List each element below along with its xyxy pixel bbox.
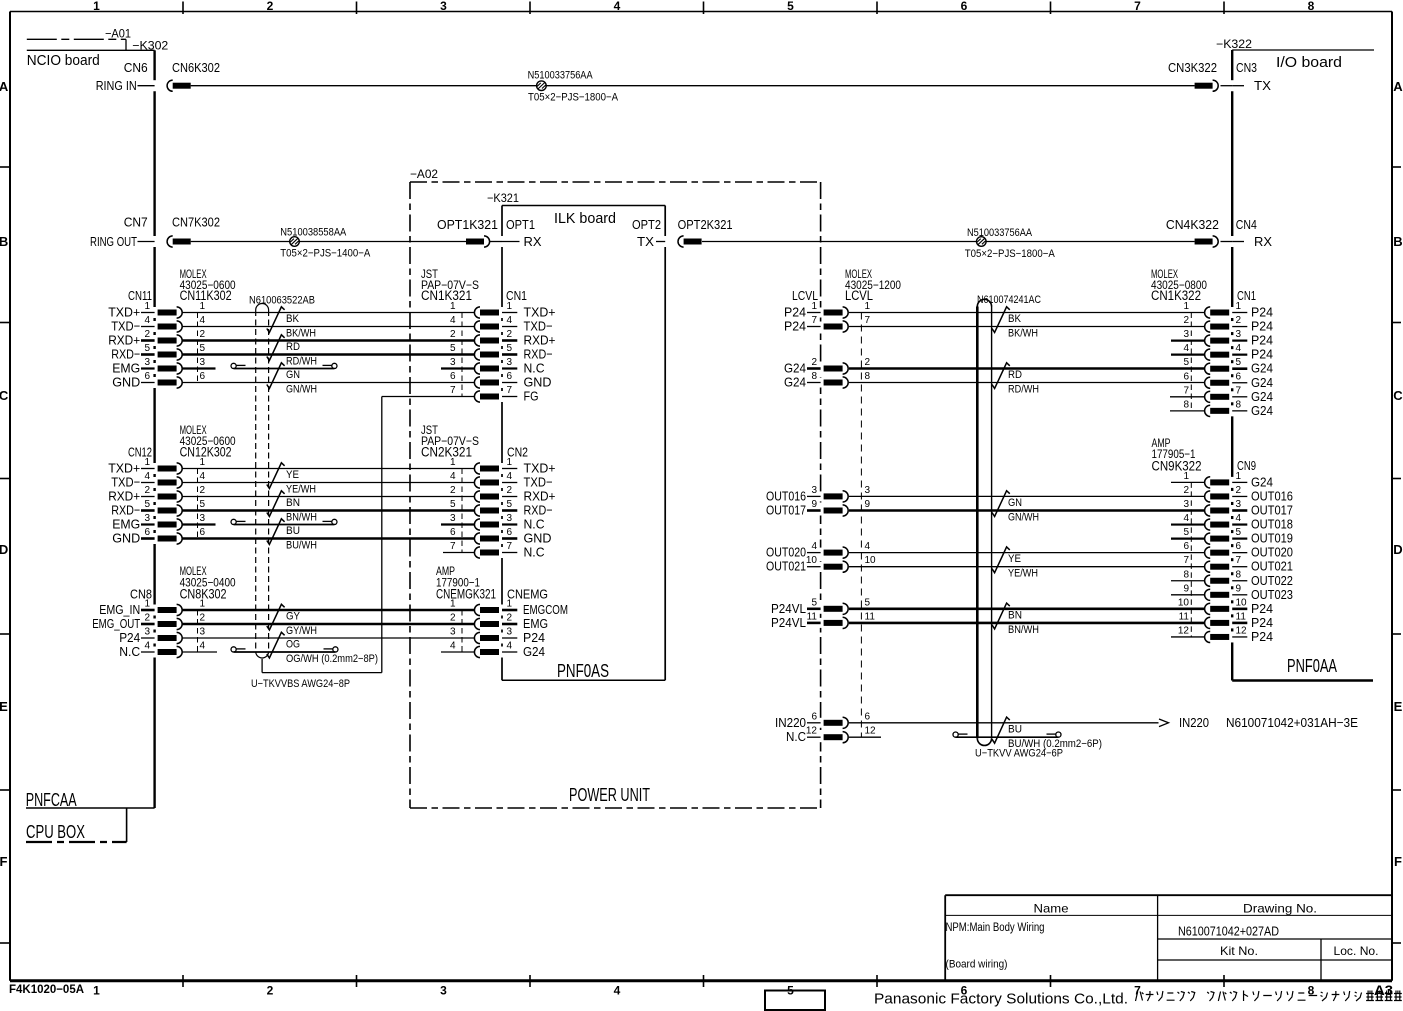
svg-text:5: 5 (787, 0, 794, 13)
svg-text:B: B (1393, 234, 1402, 249)
svg-text:7: 7 (1236, 385, 1242, 396)
svg-text:7: 7 (1134, 0, 1141, 13)
svg-text:8: 8 (811, 371, 817, 382)
svg-text:G24: G24 (1251, 389, 1273, 404)
svg-text:1: 1 (1183, 471, 1189, 482)
svg-text:OG/WH (0.2mm2−8P): OG/WH (0.2mm2−8P) (286, 653, 378, 665)
svg-text:4: 4 (811, 541, 817, 552)
boundary -A01 dash-dot line (27, 38, 126, 40)
svg-text:OUT019: OUT019 (1251, 531, 1293, 546)
svg-text:P24: P24 (784, 305, 806, 320)
svg-text:ILK board: ILK board (554, 210, 616, 227)
svg-text:TXD−: TXD− (111, 319, 140, 334)
svg-text:BN: BN (1008, 610, 1022, 622)
wire color slash BU pair (267, 519, 285, 545)
svg-text:3: 3 (440, 0, 447, 13)
wire OPT1K321 stub to ILK board (490, 241, 502, 243)
wire OPT1 RX stub (502, 241, 520, 243)
svg-text:4: 4 (1236, 343, 1242, 354)
wire CN11.4-CN1K321.4 (183, 326, 475, 328)
wire CN8.2-CNEMG.2 bold (183, 623, 475, 626)
svg-text:1: 1 (144, 599, 150, 610)
svg-text:P24: P24 (784, 319, 806, 334)
svg-text:2: 2 (1236, 485, 1242, 496)
board I/O left edge vertical (1231, 50, 1233, 80)
svg-text:OUT021: OUT021 (1251, 559, 1293, 574)
svg-text:GY: GY (286, 611, 301, 623)
svg-text:8: 8 (1236, 399, 1242, 410)
svg-text:G24: G24 (1251, 375, 1273, 390)
svg-text:PNF0AA: PNF0AA (1287, 656, 1337, 676)
svg-text:GN: GN (1008, 497, 1022, 509)
svg-text:GND: GND (524, 375, 552, 390)
connector CN1K322 boundary line (1190, 313, 1192, 411)
svg-text:B: B (0, 234, 8, 249)
svg-text:2: 2 (811, 357, 817, 368)
svg-text:OPT2: OPT2 (632, 217, 661, 232)
wire LCVL.5-CN9K322.10 bold (849, 607, 1204, 610)
svg-text:3: 3 (450, 627, 456, 638)
svg-text:P24VL: P24VL (771, 601, 806, 616)
connector CNEMGK321 boundary line (461, 610, 463, 652)
svg-text:11: 11 (1179, 611, 1190, 622)
svg-text:OUT023: OUT023 (1251, 587, 1293, 602)
svg-text:1: 1 (811, 301, 817, 312)
connector LCVL boundary line (860, 313, 862, 738)
wire CN9K322.9 stub (1171, 594, 1204, 596)
wire color slash BU pair right (992, 717, 1010, 743)
svg-text:3: 3 (450, 357, 456, 368)
svg-text:N.C: N.C (524, 545, 545, 560)
svg-text:3: 3 (507, 513, 513, 524)
wire color slash YE pair (267, 463, 285, 489)
svg-text:5: 5 (200, 499, 206, 510)
svg-text:6: 6 (144, 527, 150, 538)
board NCIO top edge (27, 49, 155, 51)
svg-text:Loc. No.: Loc. No. (1334, 944, 1379, 958)
svg-text:4: 4 (614, 984, 621, 998)
svg-text:2: 2 (200, 329, 206, 340)
svg-text:P24: P24 (1251, 305, 1273, 320)
svg-text:7: 7 (1236, 555, 1242, 566)
svg-text:P24: P24 (1251, 347, 1273, 362)
connector CN12K302 boundary line (197, 469, 199, 539)
board ILK right edge vertical (664, 206, 666, 237)
svg-text:1: 1 (93, 0, 100, 13)
svg-text:4: 4 (507, 641, 513, 652)
svg-text:OUT017: OUT017 (1251, 503, 1293, 518)
svg-text:3: 3 (200, 627, 206, 638)
svg-text:4: 4 (200, 641, 206, 652)
boundary POWER UNIT dashed box (410, 181, 821, 183)
svg-text:2: 2 (1183, 485, 1189, 496)
svg-text:BU/WH (0.2mm2−6P): BU/WH (0.2mm2−6P) (1008, 738, 1102, 750)
svg-text:CNEMG: CNEMG (507, 587, 548, 602)
wire RING OUT stub (138, 241, 155, 243)
connector CN8K302 boundary line (197, 610, 199, 652)
svg-text:3: 3 (1183, 329, 1189, 340)
svg-text:3: 3 (811, 485, 817, 496)
svg-text:6: 6 (865, 711, 871, 722)
svg-text:RD: RD (1008, 369, 1022, 381)
svg-text:N510038558AA: N510038558AA (280, 227, 347, 239)
svg-text:8: 8 (1308, 0, 1315, 13)
svg-text:7: 7 (811, 315, 817, 326)
svg-text:1: 1 (1236, 471, 1242, 482)
wire LCVL.4-CN9K322.6 (849, 552, 1204, 554)
svg-text:RXD−: RXD− (111, 347, 140, 362)
connector CN2K321 pins (474, 463, 480, 474)
svg-text:4: 4 (1236, 513, 1242, 524)
svg-text:U−TKVVBS AWG24−8P: U−TKVVBS AWG24−8P (251, 678, 350, 690)
svg-text:OUT017: OUT017 (766, 503, 806, 518)
svg-text:5: 5 (144, 499, 150, 510)
svg-text:CN7: CN7 (124, 215, 148, 230)
svg-text:PNF0AS: PNF0AS (557, 661, 609, 681)
svg-text:1: 1 (200, 301, 206, 312)
svg-text:RING OUT: RING OUT (90, 234, 137, 249)
svg-text:5: 5 (200, 343, 206, 354)
svg-text:12: 12 (1178, 625, 1190, 636)
svg-text:CN12K302: CN12K302 (180, 445, 232, 460)
svg-text:CPU BOX: CPU BOX (26, 822, 85, 842)
wire color slash GN pair (267, 363, 285, 389)
svg-text:6: 6 (144, 371, 150, 382)
folded spare wire BN/WH (234, 524, 335, 526)
wire CNEMG.4 stub (441, 651, 474, 653)
wire LCVL.7-CN1K322.2 (849, 326, 1204, 328)
svg-text:1: 1 (507, 599, 513, 610)
svg-text:CN1K321: CN1K321 (421, 288, 472, 303)
svg-text:BK: BK (286, 313, 300, 325)
svg-text:6: 6 (1183, 371, 1189, 382)
svg-text:TX: TX (637, 234, 654, 249)
svg-text:P24: P24 (1251, 615, 1273, 630)
wire CN9K322.1 stub (1171, 481, 1204, 483)
svg-text:4: 4 (450, 641, 456, 652)
wire CN1K322.7 stub (1170, 396, 1204, 398)
label Japanese company name (1136, 991, 1402, 1002)
svg-text:CN9K322: CN9K322 (1152, 459, 1202, 474)
wire OPT2 TX stub (656, 241, 665, 243)
svg-text:6: 6 (450, 527, 456, 538)
cable splice marker N510033756AA (537, 81, 547, 91)
svg-text:CN3: CN3 (1236, 60, 1257, 75)
svg-text:3: 3 (440, 984, 447, 998)
svg-text:N.C: N.C (524, 361, 545, 376)
wire LCVL.1-CN1K322.1 (849, 312, 1204, 314)
svg-text:3: 3 (507, 627, 513, 638)
svg-text:BU: BU (1008, 723, 1022, 735)
connector CN4K322 (1195, 239, 1213, 245)
svg-text:N.C: N.C (524, 517, 545, 532)
wire CN7K302 to OPT1K321 (191, 241, 466, 243)
svg-text:7: 7 (1134, 984, 1141, 998)
svg-text:POWER UNIT: POWER UNIT (569, 785, 650, 805)
svg-text:6: 6 (1236, 371, 1242, 382)
svg-text:3: 3 (1183, 499, 1189, 510)
wire CN9K322.4 stub (1171, 523, 1204, 525)
svg-text:N510033756AA: N510033756AA (967, 227, 1033, 239)
svg-text:N.C: N.C (786, 729, 806, 744)
svg-text:2: 2 (450, 329, 456, 340)
svg-text:BK/WH: BK/WH (1008, 328, 1038, 340)
svg-text:5: 5 (1236, 527, 1242, 538)
svg-text:5: 5 (1236, 357, 1242, 368)
svg-text:NPM:Main Body Wiring: NPM:Main Body Wiring (946, 922, 1045, 934)
wire color slash BN pair (267, 491, 285, 517)
svg-text:11: 11 (865, 611, 876, 622)
wire color slash BK pair (267, 307, 285, 333)
svg-text:4: 4 (865, 541, 871, 552)
svg-text:OPT1K321: OPT1K321 (437, 217, 498, 232)
svg-text:F: F (0, 854, 8, 869)
frame column ticks (182, 2, 184, 15)
wire CN8.4 N.C stub (183, 651, 218, 653)
svg-text:6: 6 (450, 371, 456, 382)
board I/O bottom edge (1232, 679, 1373, 681)
revision box (765, 991, 825, 1011)
svg-text:3: 3 (507, 357, 513, 368)
svg-text:1: 1 (200, 599, 206, 610)
svg-text:4: 4 (144, 471, 150, 482)
wire CN4 RX stub (1232, 241, 1244, 243)
svg-text:6: 6 (200, 527, 206, 538)
svg-text:4: 4 (200, 471, 206, 482)
svg-text:BU: BU (286, 525, 300, 537)
svg-text:RING IN: RING IN (96, 78, 137, 93)
svg-text:IN220: IN220 (1179, 715, 1209, 730)
svg-text:RXD+: RXD+ (108, 489, 140, 504)
svg-text:1: 1 (1236, 301, 1242, 312)
svg-text:11: 11 (1236, 611, 1247, 622)
svg-text:RX: RX (524, 234, 542, 249)
svg-text:BN: BN (286, 497, 300, 509)
wire LCVL.3-CN9K322.2 (849, 495, 1204, 497)
svg-text:E: E (1394, 699, 1403, 714)
svg-text:PNFCAA: PNFCAA (26, 790, 77, 810)
svg-text:RX: RX (1254, 234, 1272, 249)
svg-text:A: A (1393, 79, 1403, 94)
svg-text:2: 2 (507, 485, 513, 496)
board NCIO left edge vertical (153, 50, 155, 80)
wire CN8.3-CNEMG.3 (183, 637, 475, 639)
board ILK outline (502, 205, 665, 207)
svg-text:P24: P24 (1251, 601, 1273, 616)
svg-text:P24: P24 (1251, 319, 1273, 334)
wire CN11.5-CN1K321.5 bold (183, 353, 475, 356)
svg-text:OUT020: OUT020 (766, 545, 806, 560)
svg-text:G24: G24 (1251, 361, 1273, 376)
svg-text:4: 4 (507, 471, 513, 482)
svg-text:4: 4 (144, 641, 150, 652)
svg-text:YE/WH: YE/WH (286, 484, 316, 496)
svg-text:RXD+: RXD+ (108, 333, 140, 348)
connector CNEMGK321 pins (474, 604, 480, 615)
svg-text:2: 2 (450, 485, 456, 496)
svg-text:7: 7 (1183, 555, 1189, 566)
svg-text:P24: P24 (1251, 333, 1273, 348)
arrow IN220 (1159, 719, 1169, 727)
svg-text:6: 6 (811, 711, 817, 722)
wire CN3K322 stub to I/O board (1221, 85, 1233, 87)
svg-text:4: 4 (1183, 513, 1189, 524)
svg-text:Panasonic Factory Solutions Co: Panasonic Factory Solutions Co.,Ltd. (874, 991, 1128, 1008)
svg-text:YE: YE (286, 469, 299, 481)
connector CN11K302 pins (141, 312, 155, 314)
svg-text:1: 1 (144, 301, 150, 312)
cable N610063522AB outline (255, 310, 257, 652)
svg-text:1: 1 (865, 301, 871, 312)
svg-text:8: 8 (1236, 569, 1242, 580)
wire color slash RD pair (267, 335, 285, 361)
svg-text:2: 2 (1183, 315, 1189, 326)
connector CN12K302 pins (141, 468, 155, 470)
svg-text:1: 1 (450, 301, 456, 312)
svg-text:1: 1 (450, 599, 456, 610)
svg-text:N510033756AA: N510033756AA (528, 69, 594, 81)
wire CN1K322.4 stub (1171, 354, 1204, 356)
svg-text:CN2K321: CN2K321 (421, 445, 472, 460)
wire color slash OG pair (267, 632, 285, 658)
svg-text:TXD+: TXD+ (108, 305, 140, 320)
wire CN11.3 EMG stub (183, 367, 216, 369)
svg-text:CN7K302: CN7K302 (172, 215, 220, 230)
connector CN1K322 pins (1205, 307, 1211, 318)
svg-text:3: 3 (450, 513, 456, 524)
svg-text:2: 2 (865, 357, 871, 368)
wire LCVL.2-CN1K322.5 bold (849, 367, 1204, 370)
svg-text:CN4K322: CN4K322 (1166, 217, 1219, 232)
svg-text:N610071042+031AH−3E: N610071042+031AH−3E (1226, 715, 1358, 730)
svg-text:5: 5 (507, 499, 513, 510)
wire LCVL.12 N.C stub (849, 736, 881, 738)
svg-text:Drawing No.: Drawing No. (1243, 902, 1317, 916)
wire CN2K321.3 N.C stub (441, 523, 474, 525)
svg-text:RD: RD (286, 341, 300, 353)
svg-text:N.C: N.C (119, 644, 140, 659)
svg-text:1: 1 (144, 457, 150, 468)
svg-text:RXD−: RXD− (524, 503, 553, 518)
svg-text:P24: P24 (119, 630, 140, 645)
svg-text:4: 4 (450, 471, 456, 482)
svg-text:E: E (0, 699, 8, 714)
svg-text:4: 4 (614, 0, 621, 13)
svg-text:12: 12 (1236, 625, 1248, 636)
connector CN7K302 (167, 236, 173, 247)
svg-text:10: 10 (806, 555, 818, 566)
svg-text:G24: G24 (784, 375, 806, 390)
svg-text:C: C (0, 388, 9, 403)
svg-text:7: 7 (1183, 385, 1189, 396)
svg-text:I/O board: I/O board (1276, 54, 1342, 71)
svg-text:GY/WH: GY/WH (286, 625, 317, 637)
svg-text:TXD+: TXD+ (524, 305, 556, 320)
board NCIO bottom edge PNFCAA line (26, 807, 155, 809)
wire color slash GY pair (267, 604, 285, 630)
svg-text:1: 1 (93, 984, 100, 998)
wire CN4K322 stub to I/O board (1221, 241, 1233, 243)
folded spare wire OG/WH (234, 651, 336, 653)
svg-text:12: 12 (806, 726, 818, 737)
svg-text:N610071042+027AD: N610071042+027AD (1178, 924, 1279, 939)
svg-text:2: 2 (144, 485, 150, 496)
svg-text:FG: FG (524, 389, 539, 404)
svg-text:RD/WH: RD/WH (286, 356, 317, 368)
svg-text:CN1K322: CN1K322 (1151, 288, 1201, 303)
wire CN11.6-CN1K321.6 (183, 382, 475, 384)
svg-text:RXD+: RXD+ (524, 489, 556, 504)
svg-text:2: 2 (200, 613, 206, 624)
wire CN12.2-CN2K321.2 (183, 496, 475, 498)
svg-text:−A02: −A02 (410, 167, 438, 181)
wire LCVL.8-CN1K322.6 (849, 382, 1204, 384)
svg-text:2: 2 (144, 329, 150, 340)
svg-text:BU/WH: BU/WH (286, 540, 317, 552)
svg-text:RXD−: RXD− (524, 347, 553, 362)
svg-text:TXD−: TXD− (524, 475, 553, 490)
wire CN12.1-CN2K321.1 (183, 468, 475, 470)
svg-text:RXD−: RXD− (111, 503, 140, 518)
wire color slash BN pair right (992, 603, 1010, 629)
svg-text:EMG: EMG (112, 517, 140, 532)
svg-text:7: 7 (450, 541, 456, 552)
wire color slash GN pair right (992, 491, 1010, 517)
svg-text:9: 9 (811, 499, 817, 510)
svg-text:NCIO board: NCIO board (27, 52, 100, 69)
svg-text:T05×2−PJS−1800−A: T05×2−PJS−1800−A (965, 248, 1056, 260)
svg-text:11: 11 (807, 611, 818, 622)
svg-text:2: 2 (267, 0, 274, 13)
svg-text:OG: OG (286, 639, 300, 651)
folded spare wire BU/WH right (956, 736, 1059, 738)
wire CN1K322.8 stub (1170, 410, 1204, 412)
svg-text:1: 1 (450, 457, 456, 468)
wire color slash RD pair right (992, 363, 1010, 389)
svg-text:CN4: CN4 (1236, 217, 1257, 232)
wire CN1K321.7 FG from shield (382, 396, 474, 398)
cable N610074241AC outline (976, 307, 979, 739)
svg-text:D: D (0, 542, 8, 557)
svg-text:5: 5 (865, 597, 871, 608)
svg-text:CN6: CN6 (124, 60, 148, 75)
svg-text:G24: G24 (784, 361, 806, 376)
svg-text:TX: TX (1254, 78, 1271, 93)
svg-text:OUT018: OUT018 (1251, 517, 1293, 532)
frame border (10, 11, 1392, 13)
connector OPT2K321 (678, 236, 684, 247)
svg-text:D: D (1393, 542, 1402, 557)
board I/O top edge (1232, 49, 1374, 51)
svg-text:CN3K322: CN3K322 (1168, 60, 1217, 75)
svg-text:3: 3 (865, 485, 871, 496)
board ILK left edge vertical (501, 206, 503, 237)
connector CN6K302 (167, 80, 173, 91)
svg-text:7: 7 (507, 541, 513, 552)
svg-text:(Board wiring): (Board wiring) (946, 959, 1008, 971)
svg-text:OUT020: OUT020 (1251, 545, 1293, 560)
svg-text:EMGCOM: EMGCOM (523, 602, 568, 617)
svg-text:8: 8 (1183, 569, 1189, 580)
svg-text:10: 10 (1178, 597, 1190, 608)
svg-text:BK/WH: BK/WH (286, 328, 316, 340)
svg-text:5: 5 (450, 499, 456, 510)
svg-text:5: 5 (450, 343, 456, 354)
wire LCVL.6 IN220 to arrow (849, 722, 1159, 724)
svg-text:1: 1 (507, 301, 513, 312)
boundary CPU BOX dash-dot line (26, 841, 127, 843)
svg-text:5: 5 (1183, 527, 1189, 538)
